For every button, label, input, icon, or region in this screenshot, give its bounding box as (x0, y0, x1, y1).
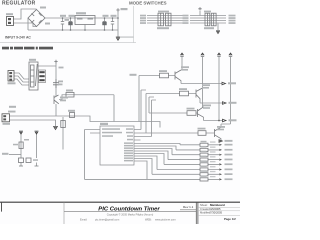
svg-text:MODE SWITCHES: MODE SWITCHES (129, 1, 167, 6)
svg-text:Mainboard: Mainboard (210, 203, 225, 207)
svg-text:7/30/2005: 7/30/2005 (210, 210, 222, 214)
svg-text:Created:: Created: (200, 207, 211, 211)
svg-text:Sheet:: Sheet: (200, 203, 208, 207)
svg-text:REGULATOR: REGULATOR (2, 1, 36, 7)
svg-text:Rev 1.1: Rev 1.1 (183, 205, 194, 209)
svg-text:Copyright © 2005 Marko Pilipko: Copyright © 2005 Marko Pilipko (Arcom) (107, 213, 154, 217)
svg-text:4/6/2005: 4/6/2005 (210, 207, 221, 211)
svg-text:www.pictimer.com: www.pictimer.com (155, 218, 176, 222)
svg-text:INPUT 9-24V AC: INPUT 9-24V AC (5, 36, 31, 40)
svg-text:PIC Countdown Timer: PIC Countdown Timer (98, 206, 160, 212)
svg-text:Page 1/2: Page 1/2 (224, 217, 236, 221)
svg-text:pic.timer@gmail.com: pic.timer@gmail.com (95, 218, 119, 222)
svg-text:WEB:: WEB: (145, 218, 152, 222)
svg-text:Email:: Email: (80, 218, 87, 222)
